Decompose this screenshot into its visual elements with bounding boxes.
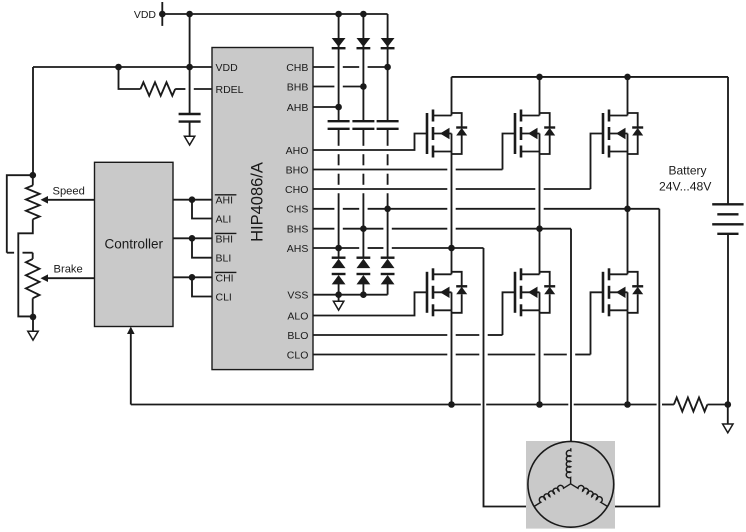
svg-text:Controller: Controller: [105, 237, 164, 252]
transistor Q1 (high side A): [427, 110, 467, 158]
wire Q1 source to Q4 drain: [451, 152, 453, 275]
resistor RDEL: [141, 82, 176, 96]
node VDD supply tick: [161, 2, 163, 26]
svg-text:VSS: VSS: [287, 290, 308, 302]
junction battery negative node: [725, 401, 732, 408]
IC pin label BHO: [286, 164, 309, 176]
clamp diode pair D5 phase B: [357, 258, 371, 285]
IC pin label BLI: [216, 253, 232, 265]
transistor Q5 (low side B): [515, 268, 555, 316]
bootstrap diode D3: [381, 38, 395, 48]
wire CHS row: [313, 208, 659, 210]
svg-text:Speed: Speed: [53, 185, 85, 197]
wire VSS ground stem: [338, 295, 340, 302]
IC pin label VDD: [216, 62, 239, 74]
IC pin label BHS: [287, 224, 309, 236]
wire Q2 source to Q5 drain: [539, 152, 541, 275]
label Speed: [53, 185, 85, 197]
junction AHB / column A: [335, 104, 342, 111]
potentiometer Brake body: [26, 253, 40, 299]
controller block: [95, 162, 174, 326]
svg-text:BHO: BHO: [286, 164, 309, 176]
junction AHS / bootstrap A: [335, 245, 342, 252]
wire BHO to Q2 gate: [313, 169, 503, 171]
IC pin label BHB: [287, 81, 309, 93]
capacitor CBB bootstrap B: [352, 121, 374, 129]
svg-text:ALO: ALO: [287, 310, 308, 322]
transistor Q6 (low side C): [603, 268, 643, 316]
wire Q6 source to shunt rail: [627, 310, 629, 404]
IC pin label CHI: [215, 272, 237, 284]
IC pin label RDEL: [216, 84, 244, 96]
wire controller AHI input: [173, 199, 212, 201]
wire battery negative ground stem: [727, 405, 729, 425]
svg-text:CHO: CHO: [285, 184, 308, 196]
resistor RSHUNT: [674, 398, 708, 412]
wire controller CHI input: [173, 276, 212, 278]
wire CLO to Q6 gate: [313, 354, 591, 356]
junction rail / Q4 source: [448, 401, 455, 408]
junction VDD / RDEL resistor: [115, 64, 122, 71]
junction rail / Q6 source: [624, 401, 631, 408]
svg-text:BHS: BHS: [287, 224, 309, 236]
arrow speed wiper: [41, 196, 49, 204]
svg-text:HIP4086/A: HIP4086/A: [249, 162, 267, 242]
wire controller BHI input: [173, 237, 212, 239]
wire CHO to Q3 gate: [313, 188, 591, 190]
wire shunt to battery negative: [707, 404, 728, 406]
junction rail / Q2 drain: [536, 74, 543, 81]
wire VDD top rail: [162, 13, 387, 15]
junction BHS / Q2 source: [536, 225, 543, 232]
wire VDD to speed pot: [32, 67, 34, 175]
motor M1 stator circle: [528, 441, 614, 527]
junction CHB / column C: [384, 64, 391, 71]
wire BLO to Q5 gate: [313, 334, 503, 336]
label Brake: [54, 263, 83, 275]
svg-text:BLI: BLI: [216, 253, 232, 265]
svg-text:CLI: CLI: [216, 292, 232, 304]
label Controller: [105, 237, 164, 252]
junction VSS / stack B: [360, 291, 367, 298]
wire CLI branch: [192, 277, 212, 296]
wire Q2 drain: [539, 77, 541, 116]
svg-text:VDD: VDD: [134, 9, 157, 21]
wire bootstrap column B lower (hops rows): [362, 129, 364, 258]
IC U1 part label HIP4086/A: [249, 162, 267, 242]
junction speed pot top: [30, 172, 37, 179]
wire ALO to Q4 gate: [313, 292, 427, 315]
svg-text:ALI: ALI: [216, 214, 232, 226]
wire brake pot return: [32, 298, 34, 317]
bootstrap diode D1: [332, 38, 346, 48]
IC U1 HIP4086/A body: [212, 48, 313, 370]
wire pot ground stem: [32, 317, 34, 331]
svg-text:VDD: VDD: [216, 62, 239, 74]
wire current sense rail: [131, 404, 674, 406]
IC pin label CHO: [285, 184, 308, 196]
wire phase A drop: [484, 248, 535, 507]
wire clamp stack A to VSS rail: [338, 284, 340, 295]
wire CHB to bootstrap C: [313, 66, 388, 68]
transistor Q3 (high side C): [603, 110, 643, 158]
capacitor CVDD: [179, 114, 201, 122]
arrow feedback into controller: [127, 327, 135, 335]
svg-text:BLO: BLO: [287, 330, 308, 342]
junction pot ground node: [30, 314, 37, 321]
svg-text:BHI: BHI: [216, 233, 234, 245]
wire speed pot return: [18, 219, 33, 316]
IC pin label VSS: [287, 290, 308, 302]
wire BLO riser: [503, 292, 516, 335]
svg-text:AHI: AHI: [216, 195, 234, 207]
wire brake wiper: [47, 277, 95, 279]
wire CLO riser: [591, 292, 604, 354]
wire AHS row: [313, 247, 484, 249]
wire RDEL resistor left leg: [119, 67, 141, 89]
wire CVDD to ground: [189, 122, 191, 137]
junction BHB / column B: [360, 83, 367, 90]
motor winding phase A (lower left): [534, 484, 571, 507]
wire BHS row: [313, 228, 571, 230]
junction AHS / Q1 source: [448, 245, 455, 252]
wire clamp stack B to VSS rail: [362, 284, 364, 295]
arrow brake wiper: [41, 274, 49, 282]
junction rail / Q5 source: [536, 401, 543, 408]
junction VDD rail / diode D1: [335, 11, 342, 18]
wire phase B drop: [570, 229, 572, 449]
wire Q3 source to Q6 drain: [627, 152, 629, 275]
svg-text:CHB: CHB: [286, 62, 308, 74]
ground VSS: [333, 301, 343, 310]
wire VDD pin feed: [33, 66, 212, 68]
junction VDD tick: [159, 11, 166, 18]
svg-text:RDEL: RDEL: [216, 84, 244, 96]
battery BT1 24V...48V: [712, 77, 743, 405]
clamp diode pair D6 phase C: [381, 258, 395, 285]
capacitor CBA bootstrap A: [328, 121, 350, 129]
IC pin label AHS: [287, 243, 309, 255]
wire CHO riser: [591, 134, 604, 190]
svg-text:AHB: AHB: [287, 102, 309, 114]
wire BHO riser: [503, 134, 516, 170]
junction AHI/ALI branch: [189, 196, 196, 203]
capacitor CBC bootstrap C: [377, 121, 399, 129]
wire pot bracket to brake pot (hops speed return): [7, 175, 33, 253]
svg-text:AHS: AHS: [287, 243, 309, 255]
motor block background: [526, 441, 615, 529]
IC pin label CHS: [286, 204, 308, 216]
svg-text:BHB: BHB: [287, 81, 309, 93]
junction VDD rail / decoupling branch: [186, 11, 193, 18]
wire BHB to bootstrap B: [313, 86, 363, 88]
IC pin label AHB: [287, 102, 309, 114]
wire bootstrap column C upper: [387, 14, 389, 121]
motor winding phase C (lower right): [571, 484, 608, 507]
wire bootstrap column B upper: [362, 14, 364, 121]
svg-text:CHS: CHS: [286, 204, 308, 216]
transistor Q4 (low side A): [427, 268, 467, 316]
wire bootstrap column A upper: [338, 14, 340, 121]
junction CHS / Q3 source: [624, 206, 631, 213]
IC pin label AHO: [286, 145, 309, 157]
potentiometer Speed body: [26, 175, 40, 219]
wire current feedback to controller: [130, 331, 132, 405]
junction BHS / bootstrap B: [360, 225, 367, 232]
junction VDD / branch: [186, 64, 193, 71]
label VDD: [134, 9, 157, 21]
bootstrap diode D2: [357, 38, 371, 48]
junction BHI/BLI branch: [189, 235, 196, 242]
wire clamp stack C to VSS rail: [387, 284, 389, 295]
IC pin label CLO: [287, 349, 309, 361]
wire speed wiper: [47, 199, 95, 201]
wire bootstrap column A lower (hops AHO/BHO/CHO): [338, 129, 340, 258]
wire BLI branch: [192, 238, 212, 257]
IC pin label BHI: [215, 233, 237, 245]
junction VSS / stack A: [335, 291, 342, 298]
wire Q3 drain: [627, 77, 629, 116]
wire VDD branch down to VDD pin and CVDD: [189, 14, 191, 114]
IC pin label CLI: [216, 292, 232, 304]
ground pots: [28, 331, 38, 340]
wire bootstrap column C lower (hops rows): [387, 129, 389, 258]
svg-text:AHO: AHO: [286, 145, 309, 157]
wire AHB to bootstrap A: [313, 106, 339, 108]
junction rail / Q3 drain: [624, 74, 631, 81]
label 24V...48V: [659, 180, 712, 194]
wire phase C drop: [608, 209, 660, 507]
junction CHI/CLI branch: [189, 274, 196, 281]
junction CHS / bootstrap C: [384, 206, 391, 213]
clamp diode pair D4 phase A: [332, 258, 346, 285]
svg-text:Battery: Battery: [669, 164, 707, 178]
svg-text:CLO: CLO: [287, 349, 309, 361]
wire Q5 source to shunt rail: [539, 310, 541, 404]
IC pin label CHB: [286, 62, 308, 74]
label Battery: [669, 164, 707, 178]
wire AHO to Q1 gate: [313, 134, 427, 151]
svg-text:CHI: CHI: [216, 272, 234, 284]
wire RDEL resistor to RDEL pin (hops VDD branch): [175, 88, 212, 90]
ground battery negative: [723, 424, 733, 433]
IC pin label ALO: [287, 310, 308, 322]
transistor Q2 (high side B): [515, 110, 555, 158]
wire ALI branch: [192, 200, 212, 219]
IC pin label BLO: [287, 330, 308, 342]
wire Q1 drain: [451, 77, 453, 116]
wire VSS rail: [313, 294, 388, 296]
ground below CVDD: [184, 136, 194, 145]
IC pin label ALI: [216, 214, 232, 226]
motor winding phase B (top): [566, 448, 571, 484]
junction VDD rail / diode D2: [360, 11, 367, 18]
IC pin label AHI: [215, 195, 237, 207]
wire battery positive rail: [452, 76, 729, 78]
svg-text:24V...48V: 24V...48V: [659, 180, 712, 194]
wire Q4 source to shunt rail: [451, 310, 453, 404]
svg-text:Brake: Brake: [54, 263, 83, 275]
